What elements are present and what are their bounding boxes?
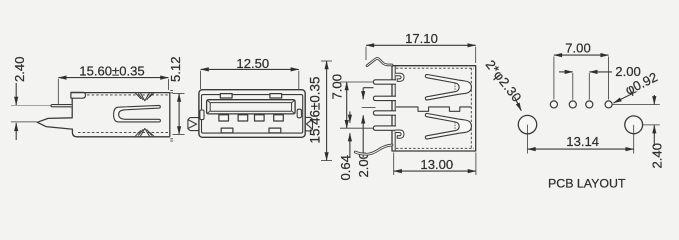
view 2: right wall tab <box>297 109 301 118</box>
svg-text:2.40: 2.40 <box>650 143 665 168</box>
PCB layout: pin holes (4) <box>550 101 612 108</box>
dimension 13.14 (PCB layout) <box>528 125 634 154</box>
dimension 7.00 (view 3 pins) <box>330 74 376 128</box>
dimension arrows at pins 2-3 (view 3) <box>362 88 376 157</box>
svg-text:0.64: 0.64 <box>338 155 353 180</box>
dimension 2.40 (view 1 left) <box>11 57 51 140</box>
view 2: left wall tab <box>200 110 204 120</box>
svg-text:5.12: 5.12 <box>168 57 183 82</box>
view 2: front view outer shell <box>199 90 305 138</box>
dimension 2.00 (PCB layout) <box>559 64 641 99</box>
svg-text:13.14: 13.14 <box>566 134 599 149</box>
view 3: middle divider with notches <box>396 107 471 111</box>
dimension 2.40 (PCB layout right) <box>613 95 665 169</box>
dimension 7.00 (PCB layout) <box>554 41 609 100</box>
view 2: tongue outer <box>207 100 296 114</box>
dimension 15.60±0.35 (view 1 top) <box>58 63 168 105</box>
view 1: spring contact (U-shape) <box>114 105 161 122</box>
svg-text:15.60±0.35: 15.60±0.35 <box>79 63 144 78</box>
svg-text:2*φ2.30: 2*φ2.30 <box>483 57 525 105</box>
svg-text:7.00: 7.00 <box>565 41 590 56</box>
dimension 17.10 (view 3 top) <box>366 31 476 63</box>
view 1: top weld notch hatching <box>135 93 154 101</box>
view 1: side view shell outline <box>37 93 170 137</box>
PCB layout: mounting holes (2) <box>518 115 642 133</box>
dimension 0.64 leader (view 3) <box>349 112 351 159</box>
view 2: right mounting tab <box>305 117 312 131</box>
view 2: top latch windows <box>220 94 232 98</box>
svg-text:2.40: 2.40 <box>12 57 27 82</box>
svg-text:PCB LAYOUT: PCB LAYOUT <box>548 177 626 191</box>
view 2: tongue inner face <box>210 103 291 112</box>
dimension 12.50 (view 2 top) <box>201 56 299 89</box>
view 1: hidden lines (dashed) <box>78 91 175 142</box>
view 3: lower fork dotted line <box>454 122 456 130</box>
dimension 5.12 (between view 1 and view 2) <box>168 57 184 135</box>
dimension 13.00 (view 3 bottom) <box>394 153 476 176</box>
dimension φ0.92 (PCB layout, leader) <box>614 69 660 103</box>
view 1: top-left solder tab <box>71 92 86 98</box>
svg-text:17.10: 17.10 <box>405 31 438 46</box>
view 3: top solder hook <box>367 58 392 65</box>
view 3: upper wall hook <box>395 73 404 81</box>
view 2: contact windows (4) <box>219 115 283 121</box>
view 3: upper contact fork <box>425 74 471 99</box>
view 3: body outline <box>392 66 476 151</box>
view 3: upper fork dotted line <box>454 83 456 91</box>
svg-text:15.46±0.35: 15.46±0.35 <box>308 77 323 144</box>
view 2: left mounting tab <box>188 118 199 131</box>
view 3: lower wall hook <box>395 130 404 138</box>
view 2: bottom latch windows <box>221 128 233 133</box>
dimension 15.46±0.35 (left of view 3) <box>308 61 332 161</box>
dimension 2*φ2.30 (PCB layout, rotated leader) <box>483 57 525 111</box>
view 2: front view inner shell line <box>202 95 303 134</box>
svg-text:13.00: 13.00 <box>420 157 453 172</box>
view 3: terminal pins (4) <box>373 80 396 131</box>
svg-text:7.00: 7.00 <box>330 74 345 99</box>
view 3: bottom bent leg <box>355 145 392 154</box>
view 1: terminal pin <box>51 105 72 107</box>
view 1: bottom weld notch hatching <box>135 128 154 136</box>
view 2: tongue corner bevels <box>207 100 294 113</box>
svg-text:2.00: 2.00 <box>356 152 371 177</box>
view 3: lower contact fork <box>425 113 471 138</box>
view 3: hidden dashed lines <box>396 68 474 149</box>
